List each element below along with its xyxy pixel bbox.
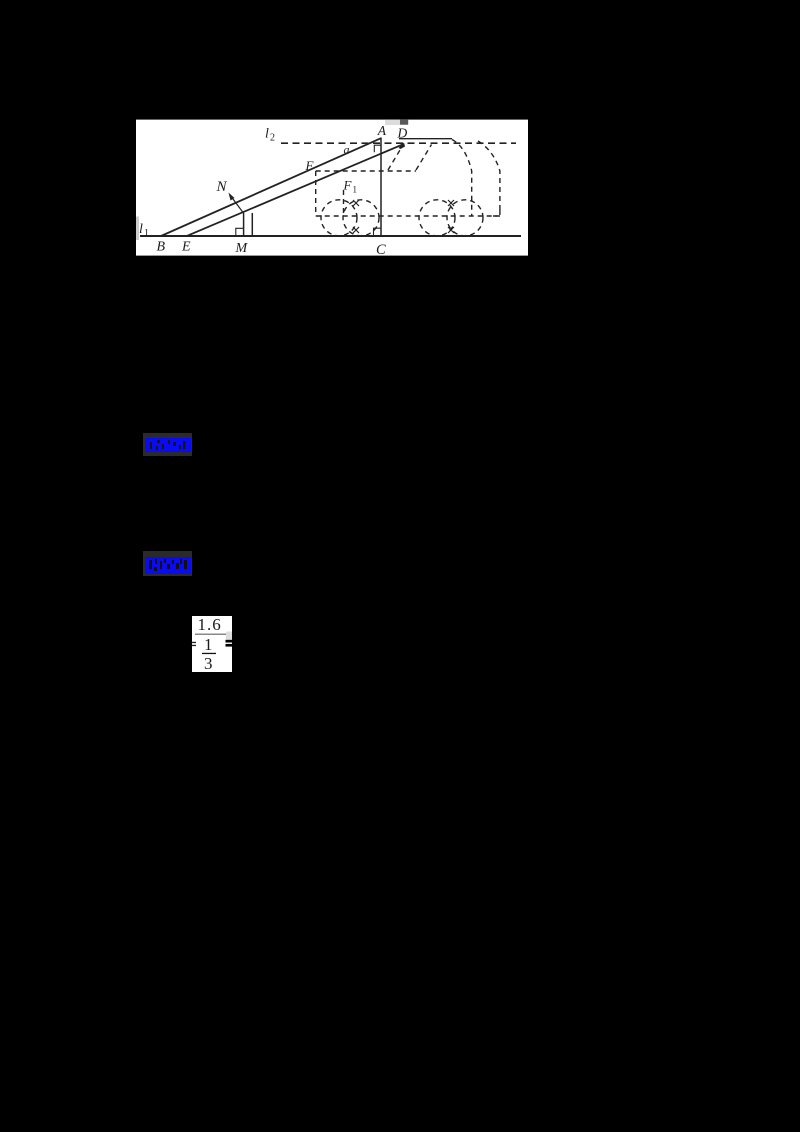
svg-text:2: 2 — [270, 133, 275, 144]
svg-text:F: F — [343, 178, 353, 193]
svg-text:1: 1 — [204, 635, 213, 654]
svg-text:C: C — [376, 242, 386, 256]
svg-text:N: N — [216, 179, 228, 195]
svg-text:B: B — [157, 240, 166, 255]
svg-text:A: A — [377, 123, 387, 138]
svg-text:1: 1 — [353, 185, 358, 195]
svg-text:D: D — [397, 126, 408, 141]
svg-text:1.6: 1.6 — [198, 615, 222, 634]
svg-text:E: E — [181, 240, 191, 255]
svg-text:a: a — [344, 143, 350, 157]
svg-text:l: l — [139, 222, 143, 237]
svg-text:3: 3 — [204, 654, 213, 673]
svg-text:F: F — [305, 158, 315, 173]
svg-text:1: 1 — [144, 228, 149, 239]
svg-text:M: M — [235, 241, 249, 256]
svg-text:l: l — [265, 127, 269, 142]
